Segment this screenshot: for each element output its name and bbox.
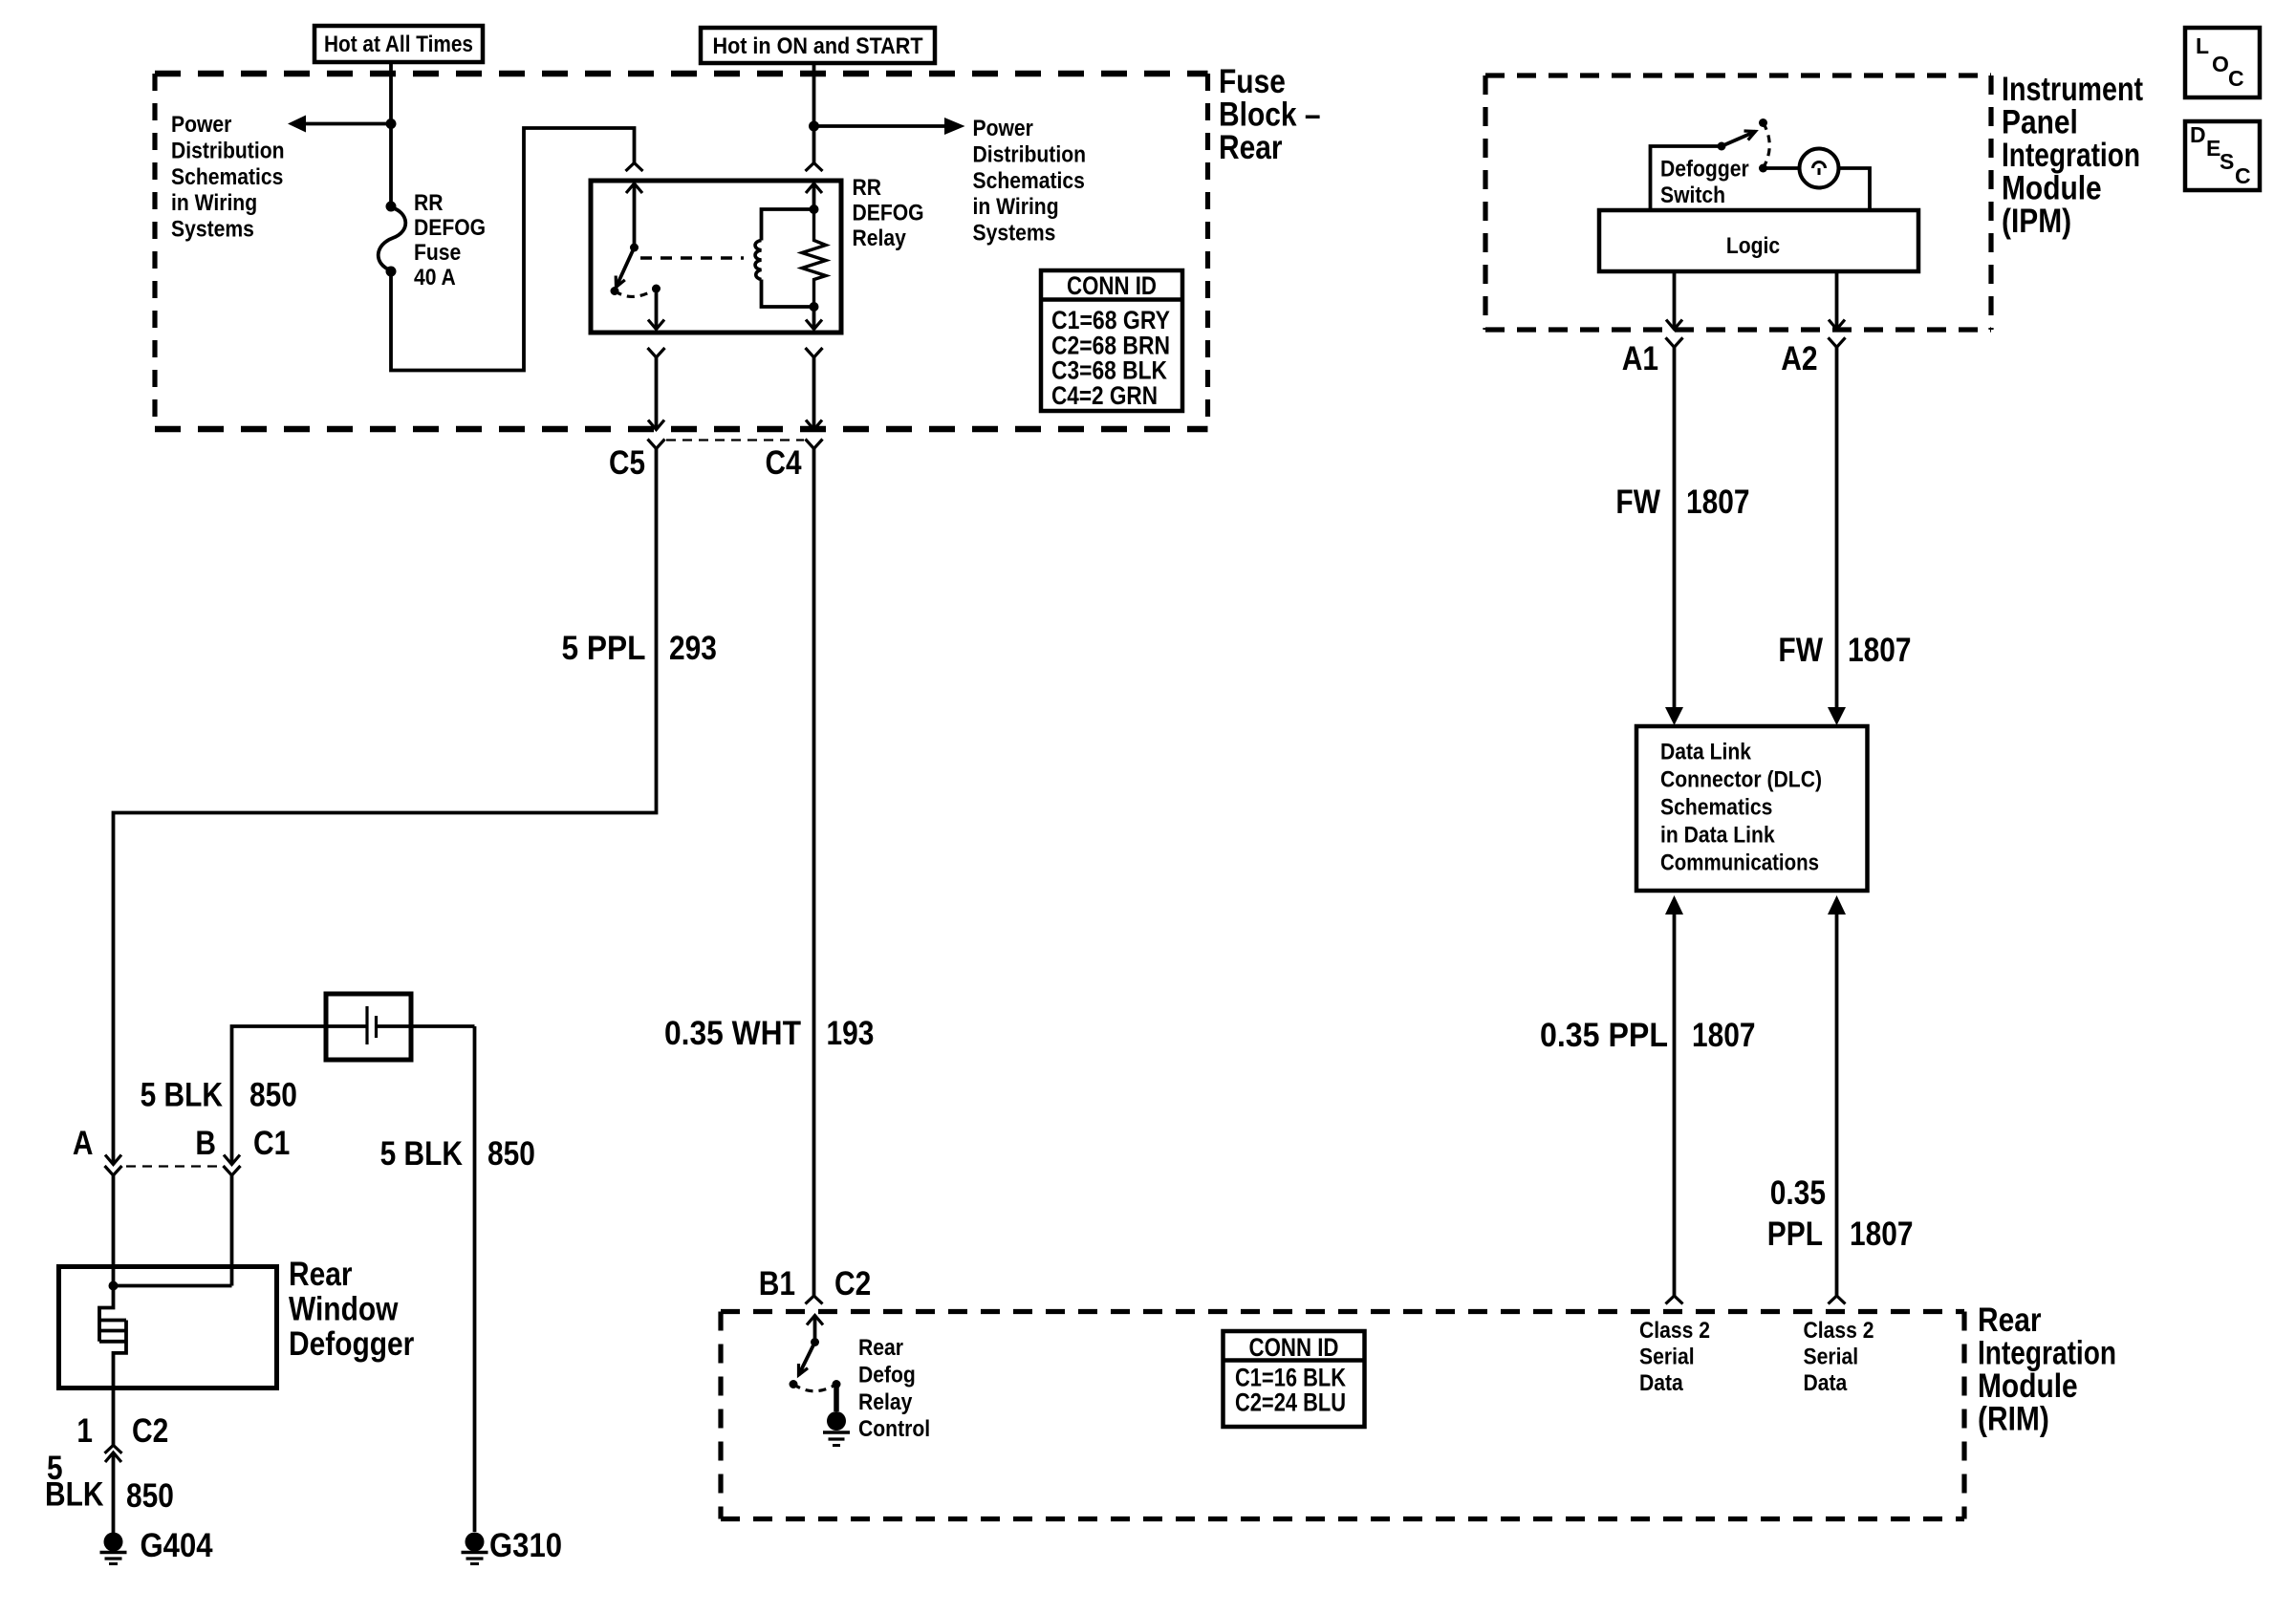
svg-text:C5: C5 <box>609 444 645 482</box>
svg-text:Instrument: Instrument <box>2002 71 2143 108</box>
svg-text:in Wiring: in Wiring <box>973 194 1059 220</box>
svg-text:A1: A1 <box>1622 340 1658 377</box>
svg-text:C4=2 GRN: C4=2 GRN <box>1051 381 1158 410</box>
svg-text:Relay: Relay <box>858 1389 913 1415</box>
svg-text:Logic: Logic <box>1726 233 1780 259</box>
svg-text:C1: C1 <box>253 1125 290 1162</box>
svg-text:Switch: Switch <box>1660 183 1725 208</box>
svg-text:1: 1 <box>76 1412 93 1450</box>
svg-text:850: 850 <box>487 1135 535 1173</box>
svg-text:Defogger: Defogger <box>289 1325 415 1363</box>
svg-text:in Data Link: in Data Link <box>1660 823 1775 849</box>
svg-text:Defog: Defog <box>858 1362 916 1388</box>
svg-text:Hot at All Times: Hot at All Times <box>324 32 473 57</box>
svg-text:0.35: 0.35 <box>1770 1174 1826 1212</box>
svg-text:Data: Data <box>1639 1370 1683 1396</box>
svg-text:0.35 WHT: 0.35 WHT <box>664 1015 801 1052</box>
svg-text:Fuse: Fuse <box>414 240 461 266</box>
svg-text:C2=24 BLU: C2=24 BLU <box>1235 1388 1346 1417</box>
svg-text:CONN ID: CONN ID <box>1249 1333 1339 1362</box>
svg-text:Distribution: Distribution <box>171 138 285 163</box>
svg-text:C2: C2 <box>132 1412 168 1450</box>
svg-text:BLK: BLK <box>45 1476 104 1514</box>
svg-text:in Wiring: in Wiring <box>171 190 257 216</box>
svg-text:5 BLK: 5 BLK <box>380 1135 463 1173</box>
svg-text:Relay: Relay <box>853 226 907 251</box>
svg-text:Power: Power <box>973 116 1033 141</box>
svg-text:Class 2: Class 2 <box>1804 1318 1874 1344</box>
svg-text:DEFOG: DEFOG <box>853 201 924 226</box>
svg-text:RR: RR <box>853 175 882 201</box>
svg-text:C2: C2 <box>834 1265 871 1302</box>
svg-text:0.35 PPL: 0.35 PPL <box>1540 1017 1668 1054</box>
svg-text:40 A: 40 A <box>414 265 456 291</box>
svg-text:Serial: Serial <box>1804 1344 1859 1369</box>
svg-text:Data: Data <box>1804 1370 1848 1396</box>
svg-text:DEFOG: DEFOG <box>414 215 486 241</box>
svg-text:FW: FW <box>1615 484 1660 521</box>
svg-text:Distribution: Distribution <box>973 141 1087 167</box>
svg-text:850: 850 <box>126 1477 174 1515</box>
svg-text:Power: Power <box>171 112 231 138</box>
svg-text:Window: Window <box>289 1291 399 1328</box>
svg-text:Control: Control <box>858 1416 930 1442</box>
svg-text:Schematics: Schematics <box>1660 795 1772 821</box>
svg-text:1807: 1807 <box>1686 484 1750 521</box>
svg-text:Data Link: Data Link <box>1660 740 1752 765</box>
svg-text:C: C <box>2228 66 2244 91</box>
svg-text:RR: RR <box>414 190 444 216</box>
svg-text:Integration: Integration <box>2002 137 2140 174</box>
svg-text:1807: 1807 <box>1850 1216 1914 1253</box>
svg-text:Hot in ON and START: Hot in ON and START <box>713 33 923 59</box>
svg-text:Rear: Rear <box>1978 1302 2042 1339</box>
svg-text:193: 193 <box>827 1015 875 1052</box>
svg-text:Integration: Integration <box>1978 1335 2116 1372</box>
svg-text:Defogger: Defogger <box>1660 157 1749 183</box>
svg-text:5 PPL: 5 PPL <box>562 630 646 667</box>
svg-text:Schematics: Schematics <box>973 168 1085 194</box>
svg-text:Connector (DLC): Connector (DLC) <box>1660 767 1822 793</box>
svg-text:(IPM): (IPM) <box>2002 203 2071 240</box>
svg-text:Block –: Block – <box>1219 97 1321 134</box>
svg-text:A2: A2 <box>1781 340 1817 377</box>
svg-text:G404: G404 <box>141 1527 213 1564</box>
svg-text:Rear: Rear <box>858 1335 903 1361</box>
svg-text:Panel: Panel <box>2002 104 2078 141</box>
svg-text:C4: C4 <box>766 444 802 482</box>
svg-text:B: B <box>195 1125 216 1162</box>
svg-text:Schematics: Schematics <box>171 164 283 190</box>
svg-text:Class 2: Class 2 <box>1639 1318 1710 1344</box>
svg-text:Rear: Rear <box>289 1256 353 1293</box>
svg-text:CONN ID: CONN ID <box>1067 271 1157 300</box>
svg-text:293: 293 <box>669 630 717 667</box>
svg-text:A: A <box>73 1125 94 1162</box>
svg-text:Serial: Serial <box>1639 1344 1695 1369</box>
svg-text:B1: B1 <box>759 1265 795 1302</box>
svg-text:Systems: Systems <box>171 217 254 243</box>
svg-text:Systems: Systems <box>973 221 1056 247</box>
svg-text:850: 850 <box>249 1077 297 1114</box>
svg-text:1807: 1807 <box>1692 1017 1756 1054</box>
svg-text:Rear: Rear <box>1219 129 1283 166</box>
svg-text:O: O <box>2212 52 2229 76</box>
svg-text:Module: Module <box>2002 170 2102 207</box>
svg-text:C: C <box>2235 163 2251 188</box>
svg-text:Module: Module <box>1978 1367 2078 1405</box>
svg-text:Fuse: Fuse <box>1219 63 1286 100</box>
svg-text:G310: G310 <box>489 1527 562 1564</box>
svg-text:S: S <box>2220 149 2234 174</box>
svg-text:L: L <box>2196 33 2209 58</box>
svg-text:PPL: PPL <box>1767 1216 1823 1253</box>
svg-text:FW: FW <box>1778 632 1823 669</box>
svg-text:1807: 1807 <box>1848 632 1912 669</box>
svg-text:Communications: Communications <box>1660 850 1819 876</box>
svg-text:5 BLK: 5 BLK <box>141 1077 223 1114</box>
svg-text:(RIM): (RIM) <box>1978 1401 2049 1438</box>
svg-text:D: D <box>2190 122 2206 147</box>
